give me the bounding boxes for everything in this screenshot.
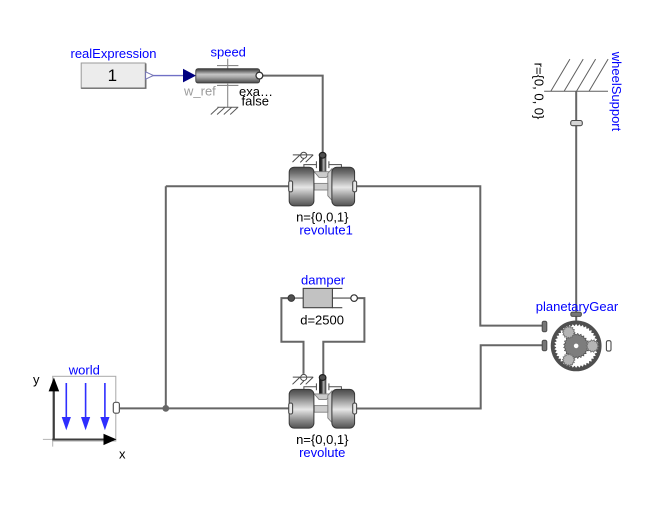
svg-text:y: y bbox=[33, 372, 40, 387]
revolute1 support symbol bbox=[301, 152, 307, 158]
svg-text:d=2500: d=2500 bbox=[300, 313, 344, 328]
damper bbox=[288, 272, 357, 327]
world x axis bbox=[52, 438, 104, 440]
damper flange_b connector bbox=[351, 295, 358, 302]
revolute middle bar bbox=[314, 406, 328, 413]
world frame_b connector bbox=[113, 402, 119, 413]
wire damper.flange_a to revolute.support bbox=[281, 298, 303, 374]
svg-text:realExpression: realExpression bbox=[71, 46, 157, 61]
svg-text:revolute1: revolute1 bbox=[299, 223, 352, 238]
speed cylinder body bbox=[196, 69, 260, 83]
svg-text:speed: speed bbox=[210, 45, 245, 60]
wire world.frame_b to revolute.frame_a bbox=[119, 407, 288, 409]
svg-text:revolute: revolute bbox=[299, 445, 345, 460]
revolute1 middle funnel bbox=[314, 172, 332, 178]
wire to revolute1.frame_a bbox=[166, 185, 289, 187]
speed flange circle bbox=[256, 72, 263, 79]
revolute right cylinder bbox=[332, 389, 355, 428]
wire signal realExpression.y to speed.w_ref bbox=[151, 75, 184, 77]
revolute middle funnel bbox=[314, 394, 332, 400]
planetaryGear ring flange connector (top) bbox=[571, 312, 582, 316]
world gravity arrow 2 bbox=[85, 383, 87, 419]
revolute middle wedge bbox=[328, 391, 332, 423]
wheelSupport fixed mount bbox=[532, 51, 625, 132]
wire speed.flange to revolute1.axis bbox=[263, 76, 323, 153]
planetaryGear ring housing bbox=[551, 321, 602, 372]
revolute support symbol bbox=[301, 374, 307, 380]
revolute1 axis flange cylinder bbox=[319, 155, 326, 172]
wire wheelSupport down to planetaryGear top flange bbox=[575, 91, 577, 320]
revolute axis flange cylinder bbox=[319, 377, 326, 394]
revolute1 frame_b connector bbox=[353, 181, 357, 192]
revolute frame_b connector bbox=[353, 403, 357, 414]
damper flange_a connector bbox=[288, 295, 295, 302]
wheelSupport frame_b connector bbox=[571, 121, 583, 126]
wire damper.flange_b to revolute.axis bbox=[323, 298, 364, 375]
damper box bbox=[303, 288, 332, 307]
wire revolute.frame_b to planetaryGear left middle flange bbox=[357, 345, 543, 408]
planetaryGear carrier flange connector (left upper) bbox=[542, 321, 547, 332]
svg-text:r={0, 0, 0}: r={0, 0, 0} bbox=[532, 63, 547, 120]
realExpression output connector y bbox=[146, 72, 154, 79]
planetaryGear planet gear right bbox=[586, 340, 599, 352]
planetaryGear flange_b connector (right) bbox=[606, 341, 611, 351]
damper cylinder lines bbox=[295, 288, 352, 307]
planetaryGear sun gear bbox=[564, 333, 589, 358]
revolute bearing brackets bbox=[304, 383, 342, 390]
planetaryGear planet gear upper left bbox=[562, 326, 575, 338]
svg-text:wheelSupport: wheelSupport bbox=[609, 51, 624, 132]
planetaryGear bbox=[536, 299, 619, 371]
world frame bbox=[33, 362, 126, 461]
revolute1 left cylinder bbox=[289, 167, 314, 206]
revolute1 middle bar bbox=[314, 183, 328, 190]
speed top support tick bbox=[217, 59, 238, 69]
node junction at world output bbox=[162, 405, 169, 412]
world icon box bbox=[53, 376, 116, 441]
svg-text:x: x bbox=[119, 447, 126, 462]
world y axis bbox=[43, 439, 53, 446]
speed source bbox=[183, 45, 273, 115]
world gravity arrow 1 bbox=[65, 383, 67, 419]
revolute1 frame_a connector bbox=[289, 181, 293, 192]
ground hatch of speed support bbox=[211, 107, 239, 114]
wire revolute1.frame_b to planetaryGear left upper flange bbox=[357, 186, 543, 325]
world gravity arrow 3 bbox=[104, 383, 106, 419]
wire vertical from node to revolute1.frame_a level bbox=[165, 186, 167, 408]
speed lower support line bbox=[217, 83, 238, 107]
svg-text:false: false bbox=[242, 94, 269, 109]
svg-text:world: world bbox=[68, 362, 100, 377]
planetaryGear ring gear teeth (white interior) bbox=[554, 324, 598, 368]
revolute joint (bottom) bbox=[289, 374, 357, 459]
svg-text:w_ref: w_ref bbox=[183, 84, 216, 99]
planetaryGear planet gear lower left bbox=[562, 354, 575, 366]
revolute1 bearing brackets bbox=[304, 161, 342, 168]
speed input connector w_ref bbox=[183, 69, 196, 83]
planetaryGear sun flange connector (left middle) bbox=[542, 340, 547, 351]
revolute1 middle wedge bbox=[328, 169, 332, 201]
realExpression source block bbox=[71, 46, 157, 88]
revolute1 joint bbox=[289, 152, 357, 237]
wheelSupport wall hatch bbox=[544, 59, 608, 91]
revolute frame_a connector bbox=[289, 403, 293, 414]
revolute1 right cylinder bbox=[332, 167, 355, 206]
svg-text:1: 1 bbox=[108, 66, 117, 85]
svg-text:damper: damper bbox=[301, 272, 346, 287]
revolute left cylinder bbox=[289, 389, 314, 428]
